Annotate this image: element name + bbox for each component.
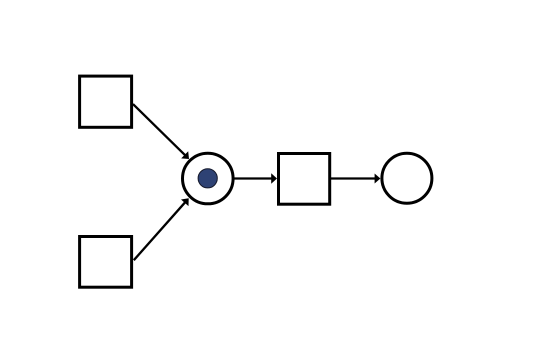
- arrowhead of arc T2 to P1: [181, 198, 189, 206]
- wire arc T1 to P1: [133, 104, 186, 156]
- wire arc T3 to P2: [331, 177, 376, 179]
- token in P1: [198, 169, 217, 188]
- wire arc T2 to P1: [134, 201, 186, 260]
- transition T1 (top-left square): [80, 76, 132, 127]
- transition T2 (bottom-left square): [80, 237, 132, 288]
- transition T3 (middle square): [279, 154, 330, 205]
- wire arc P1 to T3: [233, 177, 273, 179]
- arrowhead of arc T3 to P2: [375, 174, 381, 184]
- arrowhead of arc P1 to T3: [271, 173, 277, 183]
- place P2 (right circle): [382, 153, 432, 203]
- arrowhead of arc T1 to P1: [181, 151, 189, 159]
- place P1 (centre circle): [183, 153, 234, 204]
